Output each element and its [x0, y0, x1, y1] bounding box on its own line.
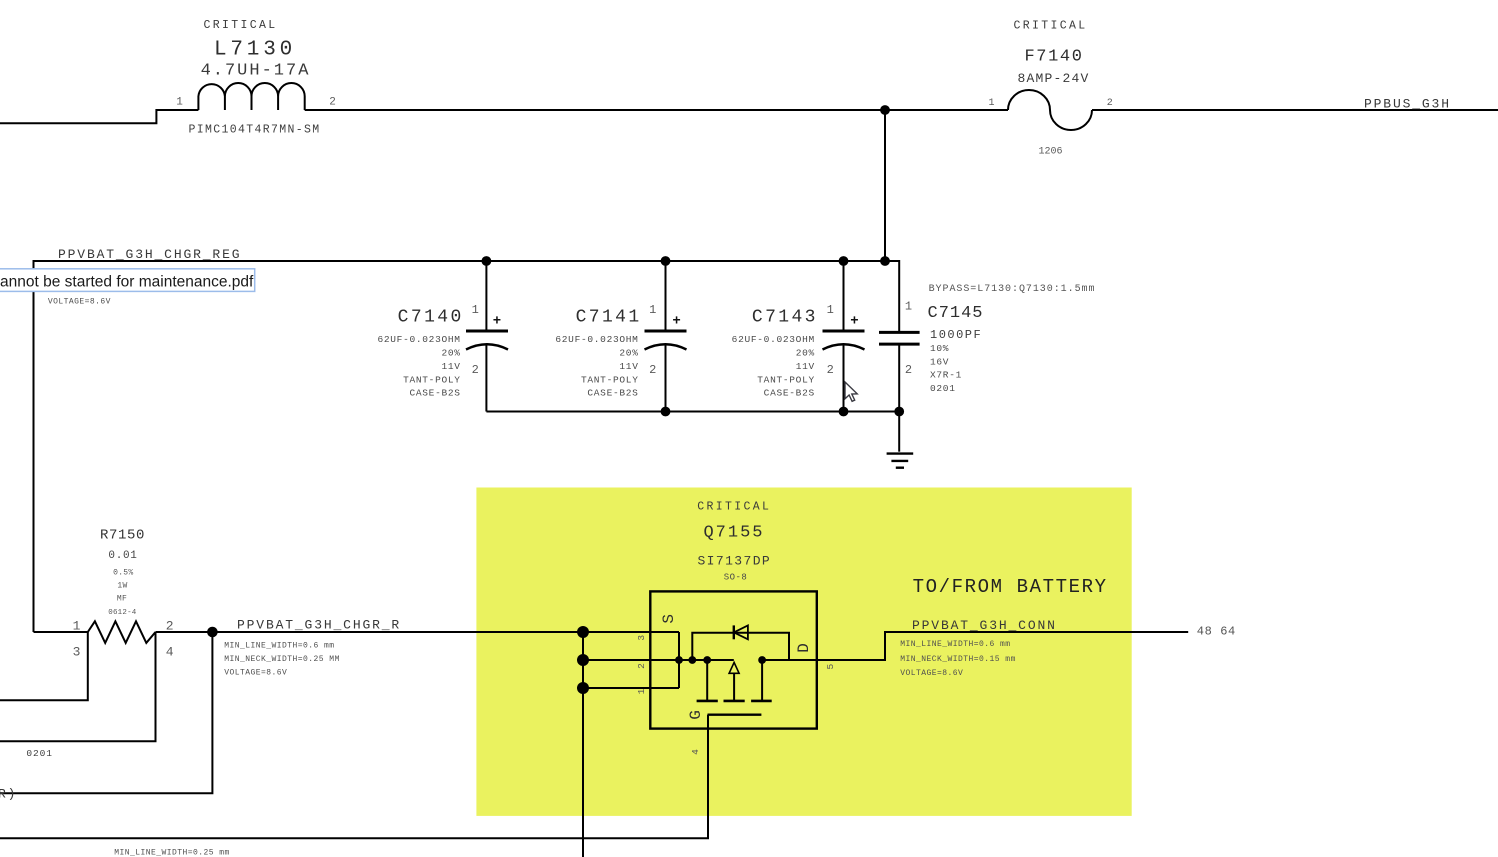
- svg-text:8AMP-24V: 8AMP-24V: [1017, 71, 1089, 86]
- svg-text:2: 2: [329, 97, 336, 109]
- node: source bus junction pin3: [577, 626, 589, 638]
- capacitor C7141: [555, 256, 686, 416]
- svg-text:+: +: [850, 314, 858, 330]
- wire: left feed into L7130 pin 1: [0, 110, 198, 123]
- svg-text:1: 1: [636, 688, 647, 694]
- fuse F7140: [988, 19, 1112, 157]
- net PPVBAT_G3H_CHGR_REG wire: [34, 261, 886, 632]
- capacitor C7143: [732, 256, 865, 416]
- svg-text:10%: 10%: [930, 343, 949, 354]
- pin 4 lead of R7150: [0, 632, 156, 741]
- svg-text:SO-8: SO-8: [724, 573, 748, 583]
- node: source bus junction pin2: [577, 654, 589, 666]
- svg-text:MIN_LINE_WIDTH=0.6 mm: MIN_LINE_WIDTH=0.6 mm: [900, 640, 1010, 649]
- svg-text:3: 3: [636, 635, 647, 641]
- wire: source pins vertical tie: [582, 632, 584, 857]
- svg-text:0201: 0201: [930, 383, 956, 394]
- svg-text:4: 4: [166, 644, 174, 659]
- svg-text:C7140: C7140: [398, 308, 464, 328]
- svg-text:1: 1: [827, 303, 834, 317]
- svg-text:0201: 0201: [26, 748, 52, 759]
- wire: pin 2 stub to source: [583, 659, 734, 661]
- capacitor C7145: [879, 261, 1095, 416]
- svg-text:4.7UH-17A: 4.7UH-17A: [201, 62, 311, 81]
- svg-text:VOLTAGE=8.6V: VOLTAGE=8.6V: [900, 669, 963, 678]
- svg-text:11V: 11V: [796, 361, 815, 372]
- tooltip: annot be started for maintenance.pdf: [0, 269, 255, 292]
- svg-text:CRITICAL: CRITICAL: [203, 19, 277, 32]
- svg-text:VOLTAGE=8.6V: VOLTAGE=8.6V: [224, 669, 287, 678]
- svg-text:1: 1: [988, 98, 994, 109]
- svg-text:4: 4: [690, 749, 701, 755]
- wire: F7140 pin 2 to right edge: [1092, 109, 1498, 111]
- svg-text:1: 1: [905, 299, 912, 313]
- node: junction on charger reg bus at C7145 feed: [880, 256, 890, 266]
- wire: drain to battery connector: [762, 632, 1188, 660]
- svg-text:CASE-B2S: CASE-B2S: [764, 388, 815, 399]
- svg-text:annot be started for maintenan: annot be started for maintenance.pdf: [0, 273, 254, 290]
- svg-text:PPVBAT_G3H_CHGR_REG: PPVBAT_G3H_CHGR_REG: [58, 247, 241, 262]
- svg-text:1: 1: [649, 303, 656, 317]
- svg-text:+: +: [493, 314, 501, 330]
- svg-text:0.5%: 0.5%: [113, 569, 133, 578]
- svg-text:C7141: C7141: [576, 308, 642, 328]
- svg-text:R): R): [0, 787, 17, 802]
- svg-text:BYPASS=L7130:Q7130:1.5mm: BYPASS=L7130:Q7130:1.5mm: [929, 284, 1096, 295]
- wire: charger net left segment: [34, 631, 88, 633]
- svg-text:62UF-0.023OHM: 62UF-0.023OHM: [555, 334, 638, 345]
- svg-text:20%: 20%: [441, 347, 460, 358]
- svg-text:16V: 16V: [930, 356, 949, 367]
- transistor Q7155: [577, 501, 836, 857]
- svg-text:X7R-1: X7R-1: [930, 370, 962, 381]
- svg-text:0.01: 0.01: [108, 550, 137, 562]
- svg-text:TANT-POLY: TANT-POLY: [581, 374, 639, 385]
- svg-text:0612-4: 0612-4: [108, 609, 137, 617]
- wire: pin 1 stub: [583, 687, 679, 689]
- svg-text:R7150: R7150: [100, 528, 145, 544]
- svg-text:11V: 11V: [619, 361, 638, 372]
- svg-text:20%: 20%: [796, 347, 815, 358]
- svg-text:TO/FROM BATTERY: TO/FROM BATTERY: [913, 576, 1108, 598]
- capacitor C7140: [377, 256, 508, 411]
- svg-text:+: +: [672, 314, 680, 330]
- svg-text:VOLTAGE=8.6V: VOLTAGE=8.6V: [48, 297, 111, 306]
- svg-text:SI7137DP: SI7137DP: [697, 553, 771, 568]
- Q7155 package box: [650, 591, 817, 728]
- svg-text:TANT-POLY: TANT-POLY: [757, 374, 815, 385]
- pin 3 lead of R7150: [0, 632, 88, 700]
- inductor L7130: [176, 19, 336, 136]
- svg-text:D: D: [795, 643, 813, 653]
- svg-text:C7145: C7145: [928, 304, 984, 323]
- svg-text:3: 3: [73, 644, 81, 659]
- yellow highlight region: [476, 488, 1131, 816]
- svg-text:5: 5: [825, 664, 836, 670]
- svg-text:S: S: [660, 614, 678, 624]
- svg-text:2: 2: [636, 663, 647, 669]
- svg-text:MIN_NECK_WIDTH=0.25 MM: MIN_NECK_WIDTH=0.25 MM: [224, 655, 340, 664]
- wire: junction down to charger reg bus: [884, 110, 886, 261]
- svg-text:2: 2: [1107, 98, 1113, 109]
- resistor R7150: [0, 528, 174, 742]
- svg-text:CRITICAL: CRITICAL: [1013, 19, 1087, 32]
- svg-text:1: 1: [472, 303, 479, 317]
- MOSFET channel bars: [697, 700, 772, 703]
- MOSFET body stem with arrow: [733, 673, 735, 701]
- svg-text:48 64: 48 64: [1197, 624, 1236, 638]
- svg-text:2: 2: [827, 363, 834, 377]
- svg-text:2: 2: [472, 363, 479, 377]
- ground symbol: [887, 412, 914, 468]
- node: source bus junction pin1: [577, 682, 589, 694]
- svg-text:62UF-0.023OHM: 62UF-0.023OHM: [377, 334, 460, 345]
- svg-text:1: 1: [176, 97, 183, 109]
- svg-text:PIMC104T4R7MN-SM: PIMC104T4R7MN-SM: [188, 124, 320, 137]
- svg-text:MF: MF: [117, 595, 127, 604]
- svg-text:CASE-B2S: CASE-B2S: [587, 388, 638, 399]
- svg-text:2: 2: [905, 363, 912, 377]
- svg-text:PPBUS_G3H: PPBUS_G3H: [1364, 97, 1451, 112]
- body diode of Q7155: [733, 625, 735, 639]
- svg-text:MIN_LINE_WIDTH=0.25 mm: MIN_LINE_WIDTH=0.25 mm: [114, 848, 230, 857]
- svg-text:MIN_NECK_WIDTH=0.15 mm: MIN_NECK_WIDTH=0.15 mm: [900, 655, 1016, 664]
- svg-text:62UF-0.023OHM: 62UF-0.023OHM: [732, 334, 815, 345]
- wire: capacitor bottom bus: [486, 411, 899, 413]
- wire: L7130 pin 2 to F7140 pin 1: [305, 109, 1008, 111]
- wire: body diode rail: [692, 633, 789, 660]
- svg-text:L7130: L7130: [214, 38, 296, 61]
- svg-text:CRITICAL: CRITICAL: [697, 501, 771, 514]
- node: junction at sense tap: [207, 627, 218, 638]
- svg-text:Q7155: Q7155: [703, 524, 764, 543]
- svg-text:20%: 20%: [619, 347, 638, 358]
- svg-text:C7143: C7143: [752, 308, 818, 328]
- svg-text:F7140: F7140: [1024, 48, 1083, 67]
- svg-text:PPVBAT_G3H_CONN: PPVBAT_G3H_CONN: [912, 618, 1057, 633]
- MOSFET gate electrode: [708, 714, 762, 716]
- svg-text:PPVBAT_G3H_CHGR_R: PPVBAT_G3H_CHGR_R: [237, 618, 401, 633]
- svg-text:11V: 11V: [441, 361, 460, 372]
- svg-text:G: G: [687, 710, 705, 720]
- svg-text:CASE-B2S: CASE-B2S: [409, 388, 460, 399]
- MOSFET source leg: [706, 660, 708, 701]
- svg-text:MIN_LINE_WIDTH=0.6 mm: MIN_LINE_WIDTH=0.6 mm: [224, 641, 334, 650]
- mouse cursor: [845, 382, 857, 401]
- svg-text:TANT-POLY: TANT-POLY: [403, 374, 461, 385]
- svg-text:1W: 1W: [117, 582, 127, 591]
- svg-text:1206: 1206: [1038, 146, 1062, 157]
- wire: sense tap down and left: [0, 632, 212, 793]
- MOSFET drain leg: [761, 660, 763, 701]
- wire: internal source tie bus: [678, 632, 680, 688]
- node: junction of PPBUS feed: [880, 105, 890, 115]
- svg-text:1000PF: 1000PF: [930, 328, 982, 342]
- wire: charger net from R7150 pin 2 into Q7155: [156, 631, 680, 633]
- svg-text:2: 2: [649, 363, 656, 377]
- wire: gate lead down and left: [0, 715, 708, 839]
